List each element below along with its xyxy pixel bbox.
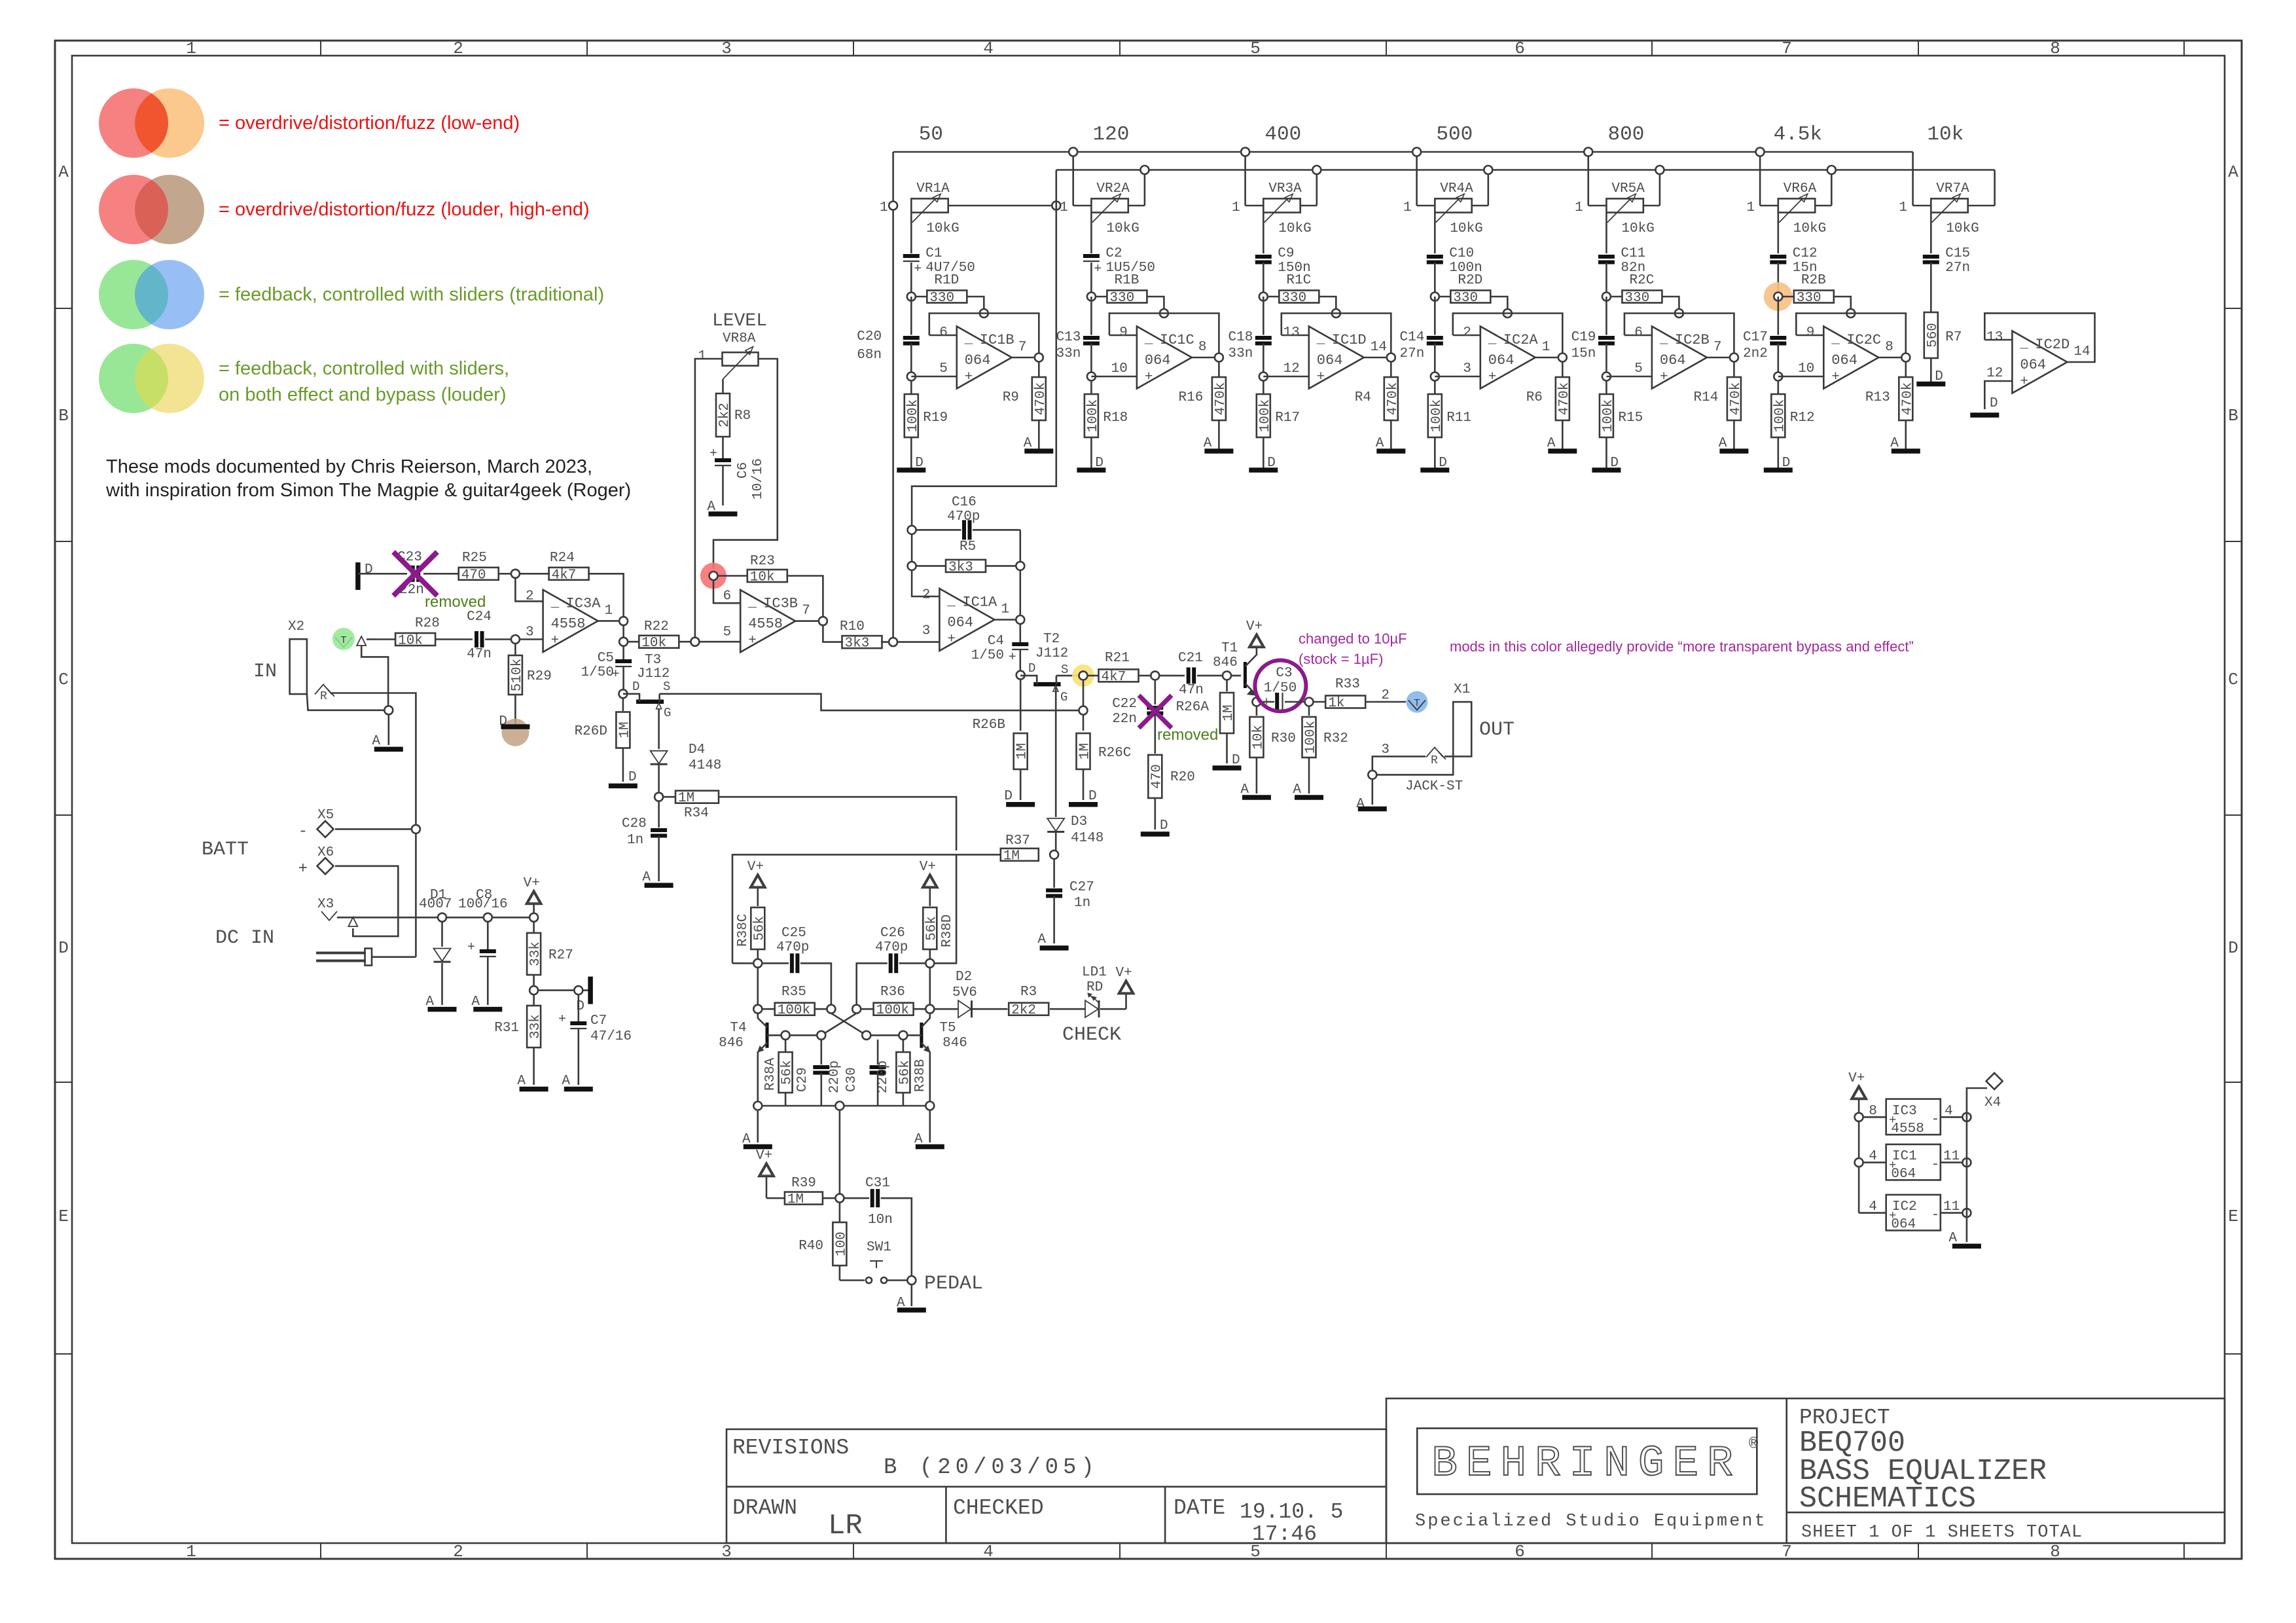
svg-text:7: 7 [1713, 340, 1722, 355]
svg-text:C25: C25 [781, 926, 806, 941]
svg-text:T2: T2 [1043, 632, 1060, 647]
resistor R14 470k [1733, 361, 1735, 377]
svg-text:C21: C21 [1178, 651, 1203, 666]
svg-text:R13: R13 [1865, 390, 1890, 405]
svg-text:_: _ [1659, 332, 1668, 347]
svg-text:8: 8 [2050, 1542, 2060, 1561]
svg-text:+: + [965, 370, 973, 385]
svg-text:470: 470 [1149, 764, 1164, 789]
wire wiper to cap VR3A [1263, 213, 1265, 253]
svg-text:D4: D4 [689, 742, 705, 757]
node T1 emitter [1252, 698, 1261, 706]
wire R38D to node [929, 949, 931, 959]
svg-text:+: + [914, 262, 922, 277]
svg-text:DRAWN: DRAWN [732, 1496, 797, 1520]
svg-text:27n: 27n [1945, 261, 1970, 276]
svg-text:064: 064 [1831, 352, 1857, 369]
wire R31 to ground [533, 1048, 535, 1085]
ground A R14 [1733, 420, 1735, 451]
svg-text:IC1A: IC1A [962, 594, 997, 611]
svg-text:330: 330 [1109, 291, 1134, 306]
wire C27 to ground [1053, 896, 1055, 943]
svg-text:1: 1 [1575, 200, 1583, 215]
svg-text:100k: 100k [1772, 399, 1787, 432]
svg-text:T4: T4 [730, 1021, 746, 1036]
wire C21 to T1 base [1197, 675, 1241, 677]
svg-text:1n: 1n [1074, 896, 1090, 911]
svg-text:500: 500 [1436, 123, 1473, 146]
svg-text:R35: R35 [781, 985, 806, 1000]
svg-text:T1: T1 [1221, 641, 1238, 656]
wire T3 gate to D4 [658, 709, 660, 749]
svg-text:13: 13 [1283, 325, 1300, 340]
svg-text:X2: X2 [288, 619, 304, 634]
resistor R7 560 [1924, 312, 1938, 358]
net D wall (bias) [588, 977, 593, 1004]
svg-text:3: 3 [922, 624, 931, 639]
wire X3 tip line [337, 917, 534, 919]
svg-text:220p: 220p [827, 1061, 842, 1093]
wire X6 to DC switch [335, 866, 398, 936]
ground A T4 [757, 1110, 759, 1143]
jack X3 tip contact [321, 911, 337, 921]
svg-text:R22: R22 [644, 619, 669, 634]
svg-text:with inspiration from Simon Th: with inspiration from Simon The Magpie &… [105, 480, 631, 501]
svg-text:D: D [2228, 938, 2238, 958]
svg-text:4k7: 4k7 [1102, 670, 1126, 685]
wire C23 to R25 [423, 573, 459, 575]
node feedback IC1D [1332, 309, 1340, 318]
svg-text:C9: C9 [1278, 246, 1294, 261]
wire R25 to node [498, 573, 515, 575]
svg-text:10: 10 [1798, 361, 1814, 376]
wire pin3 VR3A [1300, 205, 1317, 207]
node X1 sleeve junction [1368, 771, 1376, 779]
svg-text:2: 2 [526, 589, 534, 604]
svg-text:1M: 1M [1078, 743, 1093, 759]
svg-text:A: A [2228, 162, 2238, 182]
svg-text:R19: R19 [923, 410, 948, 426]
wire output IC2A [1535, 357, 1563, 359]
svg-text:R11: R11 [1446, 410, 1471, 426]
capacitor C23 22n (removed) [411, 566, 415, 582]
svg-text:C6: C6 [736, 462, 751, 479]
svg-text:C4: C4 [988, 634, 1004, 649]
resistor R38D 56k [923, 907, 937, 949]
node IC3 power [1855, 1113, 1863, 1122]
wire to plus input IC1D [1263, 344, 1265, 377]
node R32 tap [1305, 698, 1314, 706]
wire R2C to feedback [1662, 297, 1679, 309]
node T2 drain [1016, 671, 1025, 680]
capacitor C10 [1427, 255, 1443, 259]
svg-text:T5: T5 [939, 1021, 956, 1036]
svg-text:3: 3 [721, 39, 732, 58]
capacitor C9 [1255, 255, 1272, 259]
wire R5 node to IC1A minus [912, 570, 939, 596]
node C10 junction [1431, 293, 1439, 301]
svg-text:C12: C12 [1793, 246, 1818, 261]
ground D R15 [1605, 437, 1607, 470]
wire R5 right [985, 565, 1020, 567]
resistor R20 470 [1148, 755, 1162, 798]
svg-text:+: + [551, 633, 560, 648]
node red dot R23/VR8A [700, 563, 726, 589]
node IC1 power [1855, 1158, 1863, 1167]
svg-text:B: B [58, 406, 69, 426]
wire C28 to ground [658, 836, 660, 881]
svg-text:10kG: 10kG [1106, 221, 1139, 236]
wire output IC2B [1707, 357, 1734, 359]
node R5 right [1016, 562, 1024, 570]
svg-text:10k: 10k [750, 570, 775, 585]
svg-text:47n: 47n [1179, 683, 1204, 698]
diode D4 4148 [651, 751, 668, 764]
resistor R19 100k [910, 380, 912, 394]
purple X over C22 [1139, 695, 1172, 728]
svg-text:R31: R31 [494, 1021, 519, 1036]
svg-text:1M: 1M [787, 1192, 804, 1207]
svg-text:+: + [1094, 262, 1102, 277]
svg-text:R10: R10 [840, 619, 865, 634]
svg-text:064: 064 [1488, 352, 1515, 369]
op-amp IC2D [2012, 331, 2067, 393]
node feedback IC2B [1675, 309, 1683, 318]
svg-text:R29: R29 [527, 669, 552, 684]
wire to plus input IC2B [1605, 344, 1607, 377]
jack X2 switch arrow [357, 636, 366, 646]
ground A R32 [1308, 757, 1310, 793]
svg-text:DC IN: DC IN [215, 927, 274, 949]
svg-text:470k: 470k [1213, 382, 1229, 415]
svg-text:V+: V+ [1848, 1071, 1865, 1086]
wire pin1 column VR4A [1416, 152, 1418, 206]
svg-text:100k: 100k [1304, 721, 1319, 754]
ground A R4 [1390, 420, 1392, 451]
svg-text:10k: 10k [1251, 725, 1266, 750]
ground D R26A [1226, 733, 1228, 763]
svg-text:+: + [1009, 650, 1016, 665]
svg-text:= overdrive/distortion/fuzz (l: = overdrive/distortion/fuzz (louder, hig… [219, 199, 590, 220]
svg-text:R40: R40 [798, 1239, 823, 1254]
wire wiper to cap VR2A [1090, 213, 1092, 253]
svg-text:1: 1 [186, 39, 196, 58]
capacitor C14 [1434, 297, 1436, 335]
wire R21 to C21 [1138, 675, 1185, 677]
svg-text:= feedback, controlled with sl: = feedback, controlled with sliders, [219, 358, 509, 379]
svg-text:= feedback, controlled with sl: = feedback, controlled with sliders (tra… [219, 284, 604, 305]
svg-text:A: A [517, 1074, 526, 1089]
op-amp IC2C [1823, 327, 1878, 389]
node IC1A out [1016, 615, 1024, 624]
svg-text:4558: 4558 [551, 615, 586, 632]
svg-text:_: _ [1488, 332, 1497, 347]
svg-text:13: 13 [1986, 330, 2003, 345]
svg-text:_: _ [747, 596, 757, 611]
svg-text:These mods documented by Chris: These mods documented by Chris Reierson,… [106, 456, 592, 477]
resistor R38A 56k [785, 1040, 787, 1051]
svg-text:C22: C22 [1112, 697, 1137, 712]
svg-text:064: 064 [965, 352, 991, 369]
node R22 tap [619, 638, 628, 646]
resistor R27 33k [533, 922, 535, 932]
wire X1 to ground [1372, 779, 1374, 805]
svg-text:R28: R28 [415, 616, 440, 631]
cross-coupling wires [831, 1013, 867, 1036]
svg-text:330: 330 [929, 291, 954, 306]
wire D3 to R37 node [1055, 833, 1057, 850]
node R25/R24 junction [511, 570, 520, 578]
jack X2 ring contact [315, 685, 332, 695]
svg-text:A: A [1037, 932, 1046, 947]
node feedback IC1B [980, 309, 988, 318]
svg-text:9: 9 [1119, 325, 1128, 340]
svg-text:C7: C7 [590, 1013, 607, 1029]
svg-text:VR1A: VR1A [916, 181, 950, 196]
V+ LED [1100, 1008, 1126, 1010]
wire to D wall [583, 989, 590, 991]
feedback wire IC1C [1109, 314, 1219, 355]
svg-text:3: 3 [721, 1542, 732, 1561]
wire to plus input IC1B [910, 344, 912, 377]
svg-text:8: 8 [1885, 340, 1893, 355]
resistor R31 33k [533, 994, 535, 1006]
node T5 collector top [925, 959, 934, 968]
wire R37 to C27 [1053, 859, 1055, 888]
svg-text:100k: 100k [1258, 399, 1273, 432]
node D4/R34/C28 [655, 793, 663, 801]
capacitor C22 22n (removed) [1147, 706, 1163, 710]
potentiometer VR4A [1435, 198, 1471, 212]
wire C7 to ground [577, 1029, 579, 1085]
svg-text:1: 1 [1403, 200, 1412, 215]
svg-text:C13: C13 [1056, 330, 1081, 345]
wire R40 to pedal [839, 1266, 841, 1281]
svg-text:E: E [2228, 1207, 2238, 1226]
resistor R38C 56k [751, 907, 764, 949]
svg-text:064: 064 [1660, 352, 1686, 369]
resistor R4 470k [1390, 361, 1392, 377]
node IC3B out [819, 617, 827, 625]
op-amp IC2B [1652, 327, 1707, 389]
wire R23 to IC3B out [787, 576, 823, 617]
svg-text:4.5k: 4.5k [1774, 123, 1822, 146]
svg-text:6: 6 [939, 325, 948, 340]
capacitor C27 1n [1046, 888, 1062, 892]
potentiometer VR2A [1091, 198, 1128, 212]
wire C8 to ground [487, 957, 489, 1005]
svg-text:R26B: R26B [973, 718, 1005, 733]
wire yellow node down to S-rail [1083, 680, 1085, 710]
svg-text:E: E [58, 1207, 69, 1226]
wire C4 to T2 drain [1020, 650, 1022, 670]
svg-text:7: 7 [802, 604, 810, 619]
ground D R20 [1155, 798, 1157, 830]
feedback wire IC2A [1453, 314, 1563, 355]
wire to plus input IC2C [1778, 344, 1780, 377]
node feedback IC1C [1160, 309, 1168, 318]
svg-text:064: 064 [1891, 1167, 1916, 1182]
wire R24 to IC3A output [588, 574, 624, 617]
resistor R15 100k [1605, 380, 1607, 394]
capacitor C30 220p [877, 1040, 879, 1065]
svg-text:2: 2 [1463, 325, 1471, 340]
title block revisions box [726, 1429, 1386, 1543]
svg-text:R38A: R38A [763, 1057, 778, 1091]
svg-text:33n: 33n [1056, 346, 1081, 361]
svg-text:C28: C28 [622, 816, 647, 831]
capacitor C20 [910, 297, 912, 335]
svg-text:D: D [1990, 396, 1998, 411]
svg-text:-: - [298, 823, 308, 841]
svg-text:10kG: 10kG [1793, 221, 1826, 236]
svg-text:IC1D: IC1D [1332, 332, 1367, 348]
op-amp IC1C [1137, 327, 1192, 389]
resistor R11 100k [1434, 380, 1436, 394]
node R26A tap [1223, 671, 1231, 680]
svg-text:IC3A: IC3A [566, 595, 601, 611]
wire R27 to node [533, 975, 535, 986]
svg-text:R4: R4 [1355, 390, 1371, 405]
svg-text:SHEET 1 OF 1 SHEETS TOTAL: SHEET 1 OF 1 SHEETS TOTAL [1801, 1523, 2083, 1542]
feedback wire IC2D [1984, 313, 2094, 362]
svg-text:R9: R9 [1003, 390, 1019, 405]
svg-text:V+: V+ [747, 860, 764, 875]
node R36 right / T5 collector [925, 1005, 934, 1013]
svg-text:R: R [1431, 754, 1438, 767]
node R27 junction [529, 913, 538, 922]
node R39/R40/C31 [835, 1194, 844, 1203]
wire R2D to feedback [1490, 297, 1507, 309]
resistor R16 470k [1218, 361, 1220, 377]
svg-text:-: - [1931, 1158, 1940, 1173]
wire output IC1D [1364, 357, 1391, 359]
svg-text:C2: C2 [1105, 246, 1122, 261]
wire D1 to ground [441, 963, 443, 1005]
svg-text:C30: C30 [844, 1067, 859, 1092]
svg-text:C15: C15 [1945, 246, 1970, 261]
wire pin3 VR7A [1968, 205, 1995, 207]
wire T2 source to yellow node [1056, 675, 1079, 677]
wire pin3 VR2A [1128, 205, 1145, 207]
svg-text:PEDAL: PEDAL [924, 1273, 983, 1295]
svg-text:D: D [365, 562, 373, 577]
ground A R16 [1218, 420, 1220, 451]
svg-text:®: ® [1749, 1436, 1759, 1453]
wire IC3B out to R10 [823, 625, 843, 642]
svg-text:R25: R25 [462, 551, 487, 566]
svg-text:R2C: R2C [1629, 273, 1654, 288]
svg-text:100k: 100k [906, 399, 921, 432]
wire X1 sleeve U [1376, 756, 1453, 775]
svg-text:C26: C26 [880, 926, 905, 941]
resistor R8 2k2 [716, 393, 730, 437]
svg-text:CHECK: CHECK [1062, 1024, 1121, 1046]
node C12 junction [1764, 282, 1793, 311]
svg-text:R2B: R2B [1801, 273, 1826, 288]
svg-text:C31: C31 [865, 1176, 890, 1191]
ground D R11 [1434, 437, 1436, 470]
wire pin1 column VR2A [1072, 152, 1074, 206]
svg-text:1: 1 [1899, 200, 1907, 215]
diode D3 4148 [1047, 818, 1064, 831]
svg-text:5: 5 [723, 625, 732, 640]
svg-text:+: + [947, 632, 956, 647]
svg-text:SW1: SW1 [867, 1240, 891, 1255]
node C16 left [908, 526, 916, 534]
svg-text:10kG: 10kG [1621, 221, 1654, 236]
svg-text:846: 846 [1213, 655, 1238, 670]
svg-text:OUT: OUT [1479, 719, 1515, 741]
top bus wire (lower) [1056, 169, 1995, 171]
svg-text:D: D [1088, 789, 1097, 804]
svg-text:+: + [298, 860, 308, 878]
ground D R18 [1090, 437, 1092, 470]
feedback wire IC2C [1796, 314, 1906, 355]
ground D R19 [910, 437, 912, 470]
terminal pedal [907, 1276, 916, 1285]
wire R1B to feedback [1147, 297, 1164, 309]
svg-text:3: 3 [526, 625, 534, 640]
resistor R26C 1M [1077, 733, 1090, 769]
svg-text:1: 1 [1232, 200, 1240, 215]
svg-text:+: + [467, 940, 475, 955]
node D1 junction [438, 913, 446, 922]
svg-text:REVISIONS: REVISIONS [732, 1436, 849, 1460]
svg-text:C14: C14 [1399, 330, 1424, 345]
node R27/R31 [529, 986, 538, 994]
svg-text:_: _ [1144, 332, 1153, 347]
svg-text:C19: C19 [1571, 330, 1596, 345]
behringer logo box [1417, 1429, 1757, 1495]
svg-text:470k: 470k [1900, 382, 1915, 415]
feedback wire IC1B [929, 314, 1039, 355]
top bus wire (upper) [893, 151, 1913, 153]
svg-text:C3: C3 [1276, 666, 1292, 681]
svg-text:R38D: R38D [940, 915, 955, 947]
svg-text:1: 1 [1060, 200, 1068, 215]
svg-text:C24: C24 [467, 610, 492, 625]
svg-text:CHECKED: CHECKED [953, 1496, 1044, 1520]
resistor R13 470k [1905, 361, 1907, 377]
svg-text:1M: 1M [1221, 704, 1236, 721]
node T3 drain [619, 689, 627, 698]
svg-text:846: 846 [719, 1036, 744, 1051]
node R5 left [911, 534, 913, 562]
op-amp IC3B [740, 590, 795, 652]
svg-text:VR7A: VR7A [1936, 181, 1969, 196]
svg-text:removed: removed [425, 593, 486, 611]
svg-text:10kG: 10kG [1278, 221, 1311, 236]
svg-text:C17: C17 [1743, 330, 1768, 345]
wire plug to batt rail [372, 956, 416, 958]
ground A R6 [1562, 420, 1564, 451]
wire IC3A output [596, 620, 623, 622]
wire bus2 drop to C16 [912, 170, 1056, 526]
svg-text:R34: R34 [684, 806, 709, 821]
purple X over C23 [393, 552, 437, 596]
svg-text:4558: 4558 [1891, 1122, 1924, 1137]
svg-text:100k: 100k [778, 1003, 810, 1018]
terminal X4 [1986, 1073, 2003, 1089]
svg-text:A: A [58, 162, 69, 182]
jack X3 switch arrow [348, 917, 357, 926]
wire R1C to feedback [1319, 297, 1336, 309]
wire wiper to cap VR5A [1605, 213, 1607, 253]
jack X2 tip contact [335, 638, 352, 647]
T4 base rail [767, 1034, 821, 1036]
svg-text:100: 100 [834, 1231, 849, 1256]
